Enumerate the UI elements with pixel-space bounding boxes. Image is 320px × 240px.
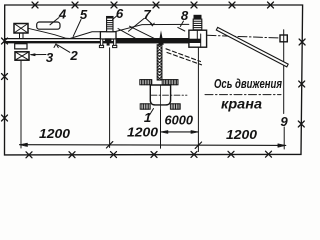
svg-text:Ось движения: Ось движения [214, 76, 282, 91]
crane rail beam (double line) [5, 38, 201, 43]
axis target square (item 9) [280, 30, 287, 149]
wire segment sagging left of clamp [28, 28, 101, 38]
rail clamp with bolt (item 6) [99, 32, 116, 48]
main dimension line 1200+1200+1200 [20, 142, 286, 149]
theodolite left foot (hatched) [140, 104, 150, 109]
dashed sight lines [166, 49, 202, 65]
leader line label 7 with tick [129, 19, 155, 32]
clamp bolt 6 (threaded) [107, 17, 113, 32]
leader line label 4 [50, 18, 59, 25]
svg-text:1200: 1200 [127, 125, 158, 139]
clamp bolt 8 (threaded) [193, 15, 202, 30]
svg-text:2: 2 [69, 48, 78, 63]
new rail section (diagonal bar) [216, 27, 288, 66]
cross marks left wire [2, 38, 8, 121]
svg-text:1200: 1200 [39, 127, 70, 141]
extension line from survey marks [20, 60, 22, 148]
theodolite plumb arrow [158, 30, 163, 45]
theodolite right foot (hatched) [170, 104, 180, 109]
extension line from theodolite [160, 110, 162, 148]
crane axis dash-dot line [207, 35, 280, 38]
theodolite body [150, 85, 187, 110]
leader line label 5 [73, 20, 81, 37]
cross marks top wire [32, 2, 274, 8]
leader slash label 1 [150, 109, 154, 116]
sighting target plate 4 (rounded box) [37, 22, 60, 29]
extension line from clamp 6 [109, 48, 111, 148]
survey mark box upper (envelope) [14, 24, 28, 39]
border frame of alignment wires [5, 5, 303, 155]
leader line label 2 [54, 44, 70, 52]
svg-text:4: 4 [58, 6, 67, 21]
theodolite lattice column [157, 45, 162, 80]
svg-text:8: 8 [181, 8, 189, 23]
leader line label 8 [178, 21, 185, 31]
theodolite left wing (hatched) [140, 80, 152, 85]
leader line label 3 with arrow [30, 54, 46, 56]
6000 dimension line with arrows [161, 130, 199, 133]
leader line label 6 [113, 16, 118, 20]
axis label underline dash-dot [205, 94, 281, 96]
svg-text:6: 6 [116, 6, 124, 21]
extension line from clamp 8 [197, 47, 199, 151]
svg-text:5: 5 [80, 7, 88, 22]
svg-text:1200: 1200 [226, 128, 257, 142]
base plate under rail [15, 44, 27, 49]
svg-text:9: 9 [280, 114, 288, 129]
svg-text:6000: 6000 [165, 113, 194, 128]
svg-text:3: 3 [46, 50, 54, 65]
crossing guy strokes near rail [118, 26, 159, 40]
svg-text:крана: крана [221, 96, 262, 112]
wire segment between clamps [116, 24, 189, 31]
theodolite right wing (hatched) [162, 80, 178, 85]
svg-text:1: 1 [144, 110, 151, 125]
survey mark box lower (envelope) [15, 52, 29, 60]
end rail clamp body (item 8) [183, 30, 207, 47]
cross marks bottom wire [26, 151, 272, 158]
svg-text:7: 7 [143, 7, 151, 22]
cross marks right wire [298, 39, 305, 127]
